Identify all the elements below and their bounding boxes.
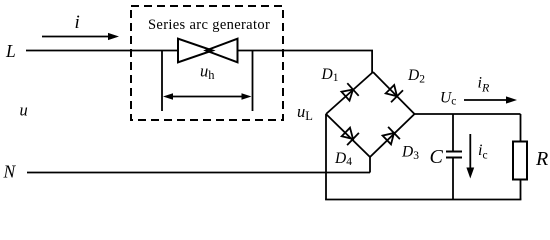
wire: bridge left vertex down to bottom rail: [325, 114, 327, 200]
current arrow i_c: [466, 134, 474, 179]
svg-text:C: C: [430, 146, 444, 168]
wire: R bottom lead: [520, 180, 522, 200]
bridge edge bottom-left: [326, 114, 370, 157]
svg-text:L: L: [5, 41, 16, 61]
wire: bottom rail: [325, 199, 521, 201]
wire: N line: [27, 172, 370, 174]
arc gap right triangle: [206, 39, 238, 63]
wire: R top lead: [520, 114, 522, 142]
svg-text:u: u: [20, 101, 28, 120]
wire: bridge bottom vertex to N line: [369, 157, 371, 173]
series arc generator dashed box: [131, 6, 283, 120]
current arrow i: [42, 33, 119, 40]
measurement tick left: [161, 51, 163, 112]
diode D1: [342, 83, 359, 100]
diode D2: [386, 85, 403, 102]
svg-text:i: i: [75, 12, 80, 33]
arc gap left triangle: [178, 39, 213, 63]
bridge edge top-right: [373, 72, 415, 114]
svg-text:Series arc generator: Series arc generator: [148, 17, 270, 33]
bridge edge top-left: [326, 72, 373, 114]
wire: drop from L line to bridge top: [371, 51, 373, 74]
wire: capacitor top lead: [452, 114, 454, 151]
svg-text:R: R: [535, 148, 548, 170]
svg-text:N: N: [3, 162, 17, 182]
resistor R body: [513, 142, 527, 180]
wire: capacitor bottom lead: [452, 158, 454, 200]
measurement tick right: [252, 51, 254, 112]
u_h double arrow: [163, 93, 252, 99]
capacitor C plates: [446, 152, 462, 158]
current arrow i_R: [464, 96, 517, 103]
wire: L line left of arc gap: [26, 50, 178, 52]
diode D3: [383, 127, 400, 144]
diode D4: [342, 128, 359, 145]
bridge edge bottom-right: [370, 114, 415, 157]
wire: bridge right vertex to R corner: [415, 113, 521, 115]
wire: L line right of arc gap: [238, 50, 374, 52]
